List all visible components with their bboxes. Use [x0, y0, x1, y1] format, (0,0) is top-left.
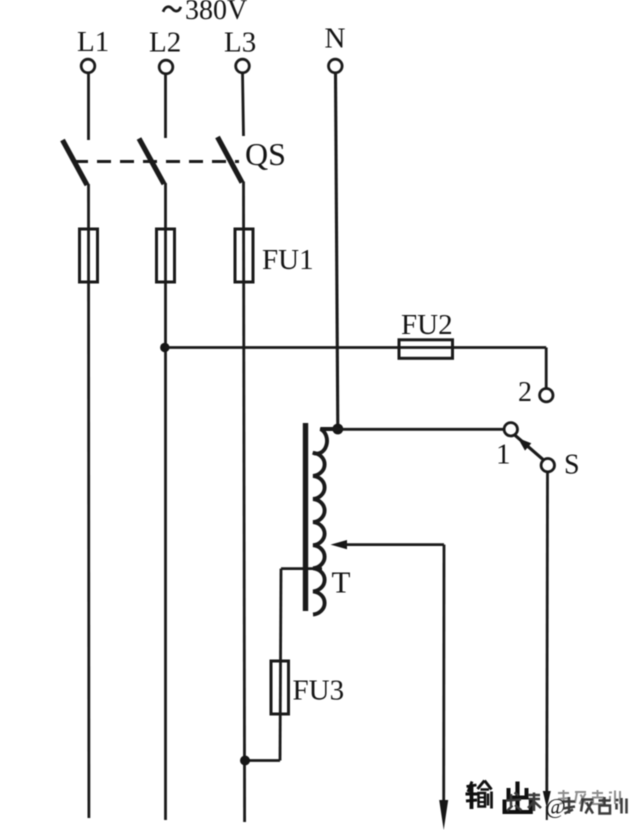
char 输 left radical 车 — [467, 785, 477, 787]
wire transformer top to contact 1 — [320, 428, 504, 431]
watermark row 1: 技成培训 (light gray) — [558, 790, 620, 804]
wire L1 terminal to QS — [87, 73, 90, 140]
terminal L1 — [81, 59, 95, 73]
wire transformer lower tap horizontal — [281, 567, 322, 570]
wire L2 junction to FU2 to right corner — [165, 346, 546, 349]
svg-text:QS: QS — [245, 136, 286, 172]
char 出 — [515, 782, 519, 812]
terminal N — [329, 59, 343, 73]
wire right corner down to contact 2 — [545, 348, 548, 389]
label ~380V tilde — [163, 7, 181, 12]
watermark row 2: 头条@技成培训 (dark gray) — [506, 793, 627, 819]
switch QS pole 1 blade — [63, 140, 88, 185]
label 输出 (output) drawn strokes — [466, 781, 531, 813]
svg-text:@: @ — [546, 794, 566, 819]
fuse FU1 pole 3 — [235, 229, 253, 282]
fuse FU3 — [271, 661, 289, 714]
svg-text:N: N — [325, 23, 346, 55]
arrowhead on tap output line — [439, 800, 448, 830]
svg-text:2: 2 — [518, 377, 532, 408]
fuse FU1 pole 1 — [80, 229, 98, 282]
svg-text:S: S — [564, 450, 580, 481]
wire tap corner down to output arrow — [442, 545, 445, 802]
svg-text:FU2: FU2 — [401, 309, 453, 341]
switch S blade with arrow — [515, 435, 544, 460]
fuse FU2 — [399, 340, 453, 359]
svg-text:FU1: FU1 — [262, 244, 314, 276]
svg-text:L2: L2 — [149, 27, 181, 59]
switch S contact 2 — [540, 389, 553, 402]
switch S contact 1 — [504, 423, 517, 436]
switch QS linkage dashed line — [74, 160, 239, 163]
transformer T core bar — [303, 423, 308, 611]
wire L1 QS through FU1 to bottom — [87, 184, 90, 818]
transformer T winding — [313, 429, 338, 615]
svg-text:FU3: FU3 — [293, 675, 345, 707]
wire L2 terminal to QS — [164, 74, 167, 138]
wire N terminal to transformer junction — [336, 73, 338, 427]
junction dot at transformer top / N node — [332, 424, 343, 435]
wire lower tap down through FU3 — [280, 569, 281, 761]
svg-text:T: T — [332, 565, 351, 600]
switch QS pole 3 blade — [218, 137, 243, 183]
svg-text:1: 1 — [496, 439, 511, 471]
wire L2 QS through FU1 to bottom — [164, 183, 167, 820]
transformer tap arrow — [331, 540, 445, 549]
wire FU3 bottom to L3 junction — [245, 759, 280, 762]
arrowhead on S output line — [543, 791, 551, 808]
terminal L3 — [236, 59, 250, 73]
wire L3 terminal to QS — [243, 73, 244, 136]
wire L3 QS through FU1 to bottom — [244, 182, 245, 823]
fuse FU1 pole 2 — [157, 229, 175, 282]
junction dot on L2 at FU2 branch — [160, 343, 169, 352]
svg-text:380V: 380V — [185, 0, 247, 26]
char 输 right part 俞 — [478, 781, 485, 790]
wire S output tail — [546, 806, 548, 820]
switch QS pole 2 blade — [139, 139, 164, 185]
junction dot on L3 — [240, 756, 250, 766]
svg-text:L3: L3 — [224, 27, 256, 59]
terminal L2 — [159, 60, 173, 74]
svg-text:L1: L1 — [77, 26, 109, 58]
switch S pole contact — [541, 459, 554, 472]
wire S pole down to output — [545, 472, 549, 793]
